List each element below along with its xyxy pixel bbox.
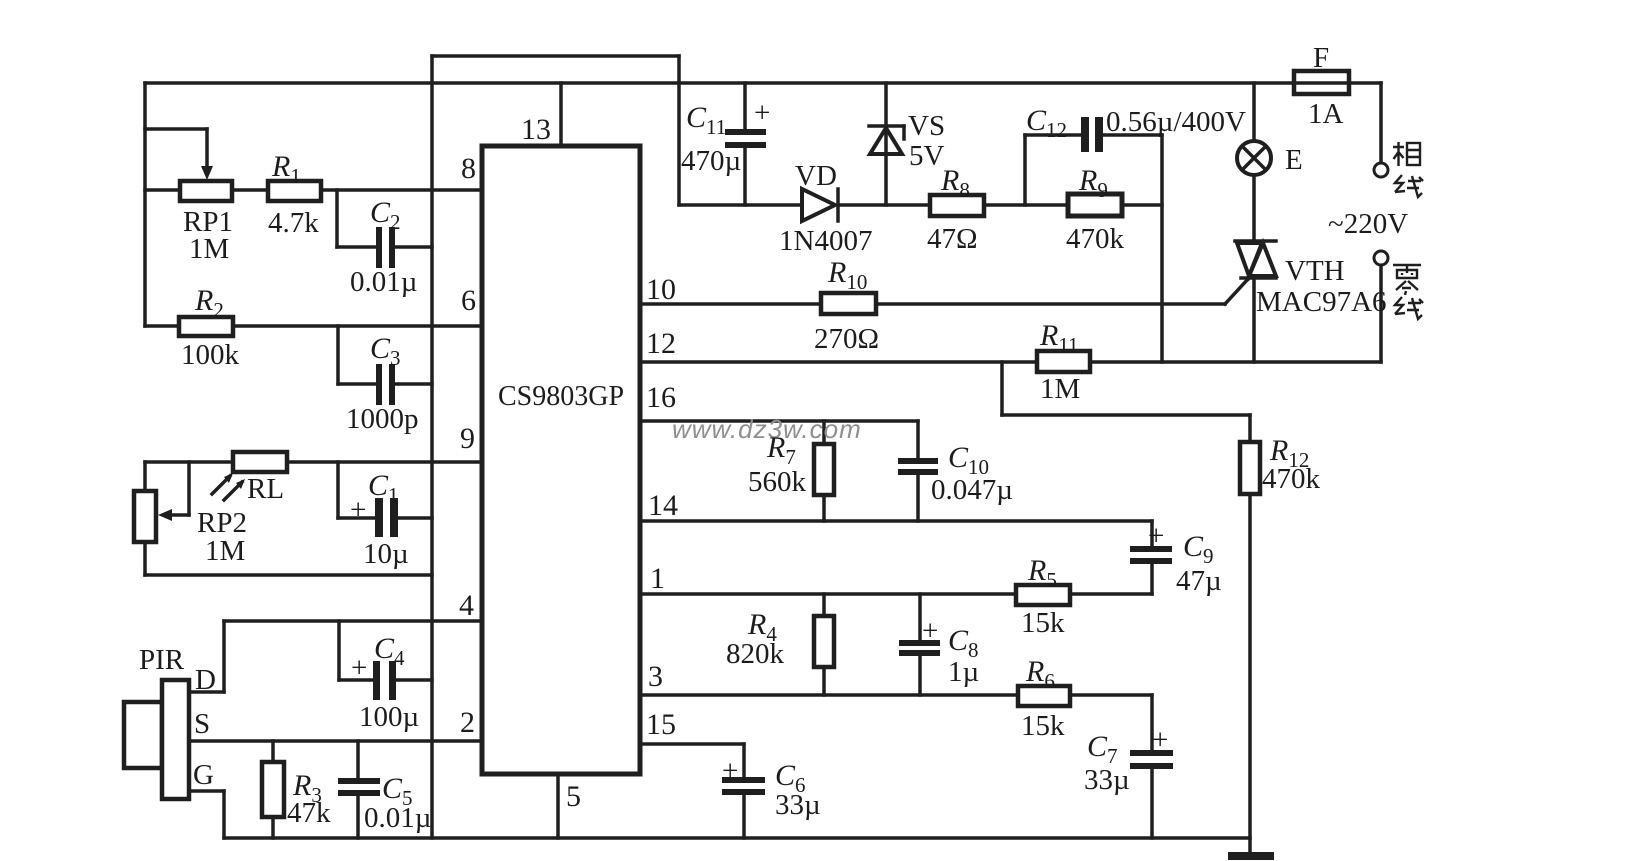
- svg-text:G: G: [193, 759, 214, 791]
- wire corner vertical x=679 to rectifier line: [677, 56, 681, 205]
- svg-text:33µ: 33µ: [775, 789, 821, 821]
- wire C9 bottom link: [1150, 564, 1154, 594]
- wire C2 drop: [335, 190, 339, 247]
- wire pin 12 line left of R11: [640, 360, 1037, 364]
- wire R12 branch jog y=415: [1002, 413, 1250, 417]
- svg-text:1M: 1M: [189, 233, 229, 265]
- svg-text:5V: 5V: [909, 140, 945, 172]
- resistor R1 4.7k: [268, 150, 321, 239]
- wire rectifier line y=205 R8 to R9: [984, 203, 1068, 207]
- svg-text:16: 16: [646, 381, 676, 414]
- svg-text:1M: 1M: [1040, 373, 1080, 405]
- wire pin 5 stub: [556, 774, 560, 838]
- wire C12 level right segment: [1103, 133, 1162, 137]
- svg-text:1M: 1M: [205, 535, 245, 567]
- wire pin 10 line right of R10: [876, 302, 1225, 306]
- wire phase terminal drop x=1381: [1379, 83, 1383, 163]
- phase line terminal: [1374, 163, 1388, 177]
- wire C1 drop: [336, 462, 340, 518]
- triac VTH MAC97A6: [1235, 241, 1387, 318]
- potentiometer RP1 1M: [180, 166, 233, 265]
- wire rectifier line y=205 R9 right: [1122, 203, 1162, 207]
- wire left bus drop x=145: [143, 83, 147, 326]
- svg-text:820k: 820k: [726, 638, 785, 670]
- photoresistor RL: [212, 452, 287, 505]
- capacitor C6 33u electrolytic: [722, 755, 821, 821]
- wire C6 bottom link: [742, 795, 746, 838]
- wire C4 level right: [396, 678, 432, 682]
- resistor R3 47k: [262, 762, 331, 829]
- wire C3 level left: [338, 382, 376, 386]
- svg-text:RL: RL: [247, 473, 284, 505]
- wire C11 branch lower: [743, 148, 747, 205]
- svg-text:5: 5: [566, 780, 581, 813]
- wire RP2 top link: [143, 462, 147, 491]
- svg-text:470k: 470k: [1262, 463, 1321, 495]
- potentiometer RP2 1M: [134, 491, 247, 567]
- svg-text:S: S: [194, 708, 210, 740]
- svg-text:0.56µ/400V: 0.56µ/400V: [1106, 106, 1246, 138]
- svg-text:0.01µ: 0.01µ: [350, 266, 417, 298]
- wire C8 top link: [918, 594, 922, 640]
- svg-text:13: 13: [521, 113, 551, 146]
- wire C3 level right: [395, 382, 432, 386]
- capacitor C10 0.047u: [898, 441, 1013, 506]
- svg-text:+: +: [1152, 724, 1168, 756]
- wire PIR D lead: [189, 690, 224, 694]
- wire RP2 wiper horizontal: [172, 513, 189, 517]
- svg-text:3: 3: [648, 660, 663, 693]
- svg-text:560k: 560k: [748, 466, 807, 498]
- wire C12 left link vertical x=1025: [1023, 135, 1027, 205]
- svg-text:0.01µ: 0.01µ: [364, 802, 431, 834]
- svg-text:+: +: [350, 494, 366, 526]
- wire top loop from node above IC to C11 corner: [432, 54, 679, 58]
- svg-text:+: +: [922, 615, 938, 647]
- svg-text:270Ω: 270Ω: [814, 323, 879, 355]
- svg-text:CS9803GP: CS9803GP: [498, 381, 624, 412]
- wire PIR D riser x=224: [222, 621, 226, 692]
- svg-text:1µ: 1µ: [948, 656, 979, 688]
- svg-text:0.047µ: 0.047µ: [931, 474, 1013, 506]
- wire C12 level left segment: [1025, 133, 1081, 137]
- svg-text:100µ: 100µ: [359, 701, 419, 733]
- wire C8 bottom link: [918, 656, 922, 695]
- wire pin 8 line: [145, 188, 482, 192]
- capacitor C11 470u electrolytic: [681, 97, 770, 177]
- wire C5 top link: [356, 741, 360, 779]
- wire C9 top link: [1150, 521, 1154, 546]
- wire pin 12 line right of R11: [1090, 360, 1381, 364]
- svg-text:E: E: [1285, 144, 1303, 176]
- resistor R12 470k: [1240, 434, 1321, 495]
- neutral line terminal: [1374, 251, 1388, 265]
- wire pin 13 stub: [559, 83, 563, 146]
- IC U1 CS9803GP body: [482, 146, 640, 774]
- wire C10 bottom link: [916, 475, 920, 521]
- svg-text:47µ: 47µ: [1176, 565, 1222, 597]
- svg-text:47Ω: 47Ω: [927, 223, 978, 255]
- wire pin 6 line: [145, 324, 482, 328]
- svg-text:VTH: VTH: [1285, 255, 1345, 287]
- wire RP1 wiper arrow stem: [205, 129, 209, 172]
- wire RP2 bottom link: [143, 542, 147, 575]
- svg-text:F: F: [1313, 42, 1329, 74]
- resistor R2 100k: [179, 284, 240, 371]
- wire C11 branch upper: [743, 83, 747, 129]
- wire pin 15 line: [640, 742, 744, 746]
- wire pin 2 / PIR S line: [189, 739, 482, 743]
- svg-text:D: D: [195, 664, 216, 696]
- wire RP1 wiper feed horizontal: [145, 127, 207, 131]
- svg-text:470k: 470k: [1066, 223, 1125, 255]
- svg-text:VS: VS: [908, 110, 945, 142]
- label neutral wire chinese: [1393, 265, 1423, 319]
- resistor R5 15k: [1016, 554, 1070, 639]
- svg-text:15: 15: [646, 708, 676, 741]
- svg-text:2: 2: [460, 706, 475, 739]
- svg-text:6: 6: [461, 284, 476, 317]
- svg-text:9: 9: [460, 422, 475, 455]
- capacitor C7 33u electrolytic: [1084, 724, 1173, 796]
- resistor R8 47 ohm: [927, 164, 984, 255]
- wire RP2 bottom return y=575: [145, 573, 432, 577]
- wire R7 bottom link: [822, 495, 826, 521]
- wire pin 3 line left of R6: [640, 693, 1018, 697]
- wire bottom ground bus y=838: [224, 836, 1250, 840]
- wire R12 branch drop x=1002: [1000, 362, 1004, 415]
- svg-text:14: 14: [648, 489, 678, 522]
- capacitor C12 0.56u/400V: [1026, 104, 1246, 152]
- capacitor C5 0.01u: [338, 772, 431, 834]
- wire pin 1 line left of R5: [640, 592, 1016, 596]
- svg-text:47k: 47k: [287, 797, 331, 829]
- wire R3 top link: [271, 741, 275, 762]
- svg-text:VD: VD: [795, 160, 837, 192]
- wire C4 level left: [339, 678, 373, 682]
- wire R12 bottom to ground bus: [1248, 494, 1252, 855]
- wire C2 level left: [337, 245, 376, 249]
- svg-text:PIR: PIR: [139, 644, 185, 676]
- capacitor C1 10u electrolytic: [350, 469, 409, 570]
- wire long vertical rail x=432: [430, 56, 434, 838]
- wire pin 16 line: [640, 419, 918, 423]
- svg-text:100k: 100k: [181, 339, 240, 371]
- wire PIR G drop: [222, 791, 226, 838]
- svg-text:10: 10: [646, 273, 676, 306]
- svg-text:10µ: 10µ: [363, 538, 409, 570]
- wire VS branch upper: [884, 83, 888, 126]
- wire R7 top link: [822, 421, 826, 444]
- svg-text:1000p: 1000p: [346, 403, 419, 435]
- wire rectifier line y=205 segment VD anode: [679, 203, 801, 207]
- wire pin 10 line left of R10: [640, 302, 821, 306]
- wire lamp branch upper: [1252, 83, 1256, 141]
- svg-text:4.7k: 4.7k: [268, 207, 319, 239]
- wire lamp to triac: [1252, 175, 1256, 241]
- svg-text:33µ: 33µ: [1084, 764, 1130, 796]
- wire C7 bottom link: [1150, 769, 1154, 838]
- wire C5 bottom link: [356, 796, 360, 838]
- wire C1 level right: [398, 516, 432, 520]
- wire R4 top link: [822, 594, 826, 616]
- wire C4 drop: [337, 621, 341, 680]
- svg-text:4: 4: [459, 589, 474, 622]
- wire RP2 wiper riser x=189: [187, 462, 191, 515]
- wire R3 bottom link: [271, 817, 275, 838]
- wire top supply bus y=83: [145, 81, 1381, 85]
- wire pin 4 line: [224, 619, 482, 623]
- svg-text:+: +: [1148, 520, 1164, 552]
- fuse F 1A: [1294, 42, 1349, 130]
- wire rectifier line y=205 VD cathode to R8: [840, 203, 930, 207]
- wire C1 level left: [338, 516, 375, 520]
- resistor R10 270 ohm: [814, 256, 879, 355]
- wire triac to pin12 net: [1252, 278, 1256, 362]
- resistor R9 470k: [1066, 164, 1125, 255]
- svg-text:15k: 15k: [1021, 710, 1065, 742]
- wire pin 14 line: [640, 519, 1152, 523]
- svg-text:~220V: ~220V: [1328, 208, 1408, 240]
- wire C10 top link: [916, 421, 920, 458]
- wire C6 top link: [742, 744, 746, 777]
- diode VD 1N4007: [779, 160, 872, 257]
- svg-text:+: +: [754, 97, 770, 129]
- svg-text:8: 8: [461, 152, 476, 185]
- PIR sensor body: [124, 644, 216, 799]
- resistor R11 1M: [1037, 319, 1090, 405]
- wire PIR G lead: [189, 789, 224, 793]
- wire pin 3 line right of R6: [1070, 693, 1152, 697]
- capacitor C2 0.01u: [350, 196, 417, 298]
- svg-text:1A: 1A: [1308, 98, 1344, 130]
- wire triac gate diagonal: [1225, 279, 1248, 304]
- zener diode VS 5V: [869, 110, 945, 172]
- capacitor C3 1000p: [346, 332, 419, 435]
- capacitor C4 100u electrolytic: [351, 632, 419, 733]
- svg-text:MAC97A6: MAC97A6: [1256, 286, 1387, 318]
- resistor R6 15k: [1018, 655, 1070, 742]
- wire C7 top link: [1150, 695, 1154, 750]
- resistor R4 820k: [726, 608, 834, 670]
- wire C12/R9 right vertical x=1162 down to pin12 net: [1160, 135, 1164, 362]
- resistor R7 560k: [748, 431, 834, 498]
- wire C2 level right: [395, 245, 432, 249]
- capacitor C9 47u electrolytic: [1130, 520, 1222, 597]
- ground symbol: [1228, 852, 1274, 860]
- wire neutral terminal drop x=1381: [1379, 265, 1383, 362]
- svg-text:+: +: [351, 652, 367, 684]
- lamp E: [1237, 141, 1303, 176]
- wire R4 bottom link: [822, 667, 826, 695]
- wire pin 1 line right of R5: [1070, 592, 1152, 596]
- svg-text:1N4007: 1N4007: [779, 225, 872, 257]
- svg-text:12: 12: [646, 327, 676, 360]
- wire VS branch lower: [884, 128, 888, 205]
- svg-text:470µ: 470µ: [681, 145, 741, 177]
- svg-text:+: +: [722, 755, 738, 787]
- wire R12 top link: [1248, 415, 1252, 442]
- label phase wire chinese: [1393, 142, 1423, 197]
- svg-text:15k: 15k: [1021, 607, 1065, 639]
- wire C3 drop: [336, 326, 340, 384]
- svg-text:1: 1: [650, 562, 665, 595]
- wire pin 9 line: [145, 460, 482, 464]
- capacitor C8 1u electrolytic: [899, 615, 979, 688]
